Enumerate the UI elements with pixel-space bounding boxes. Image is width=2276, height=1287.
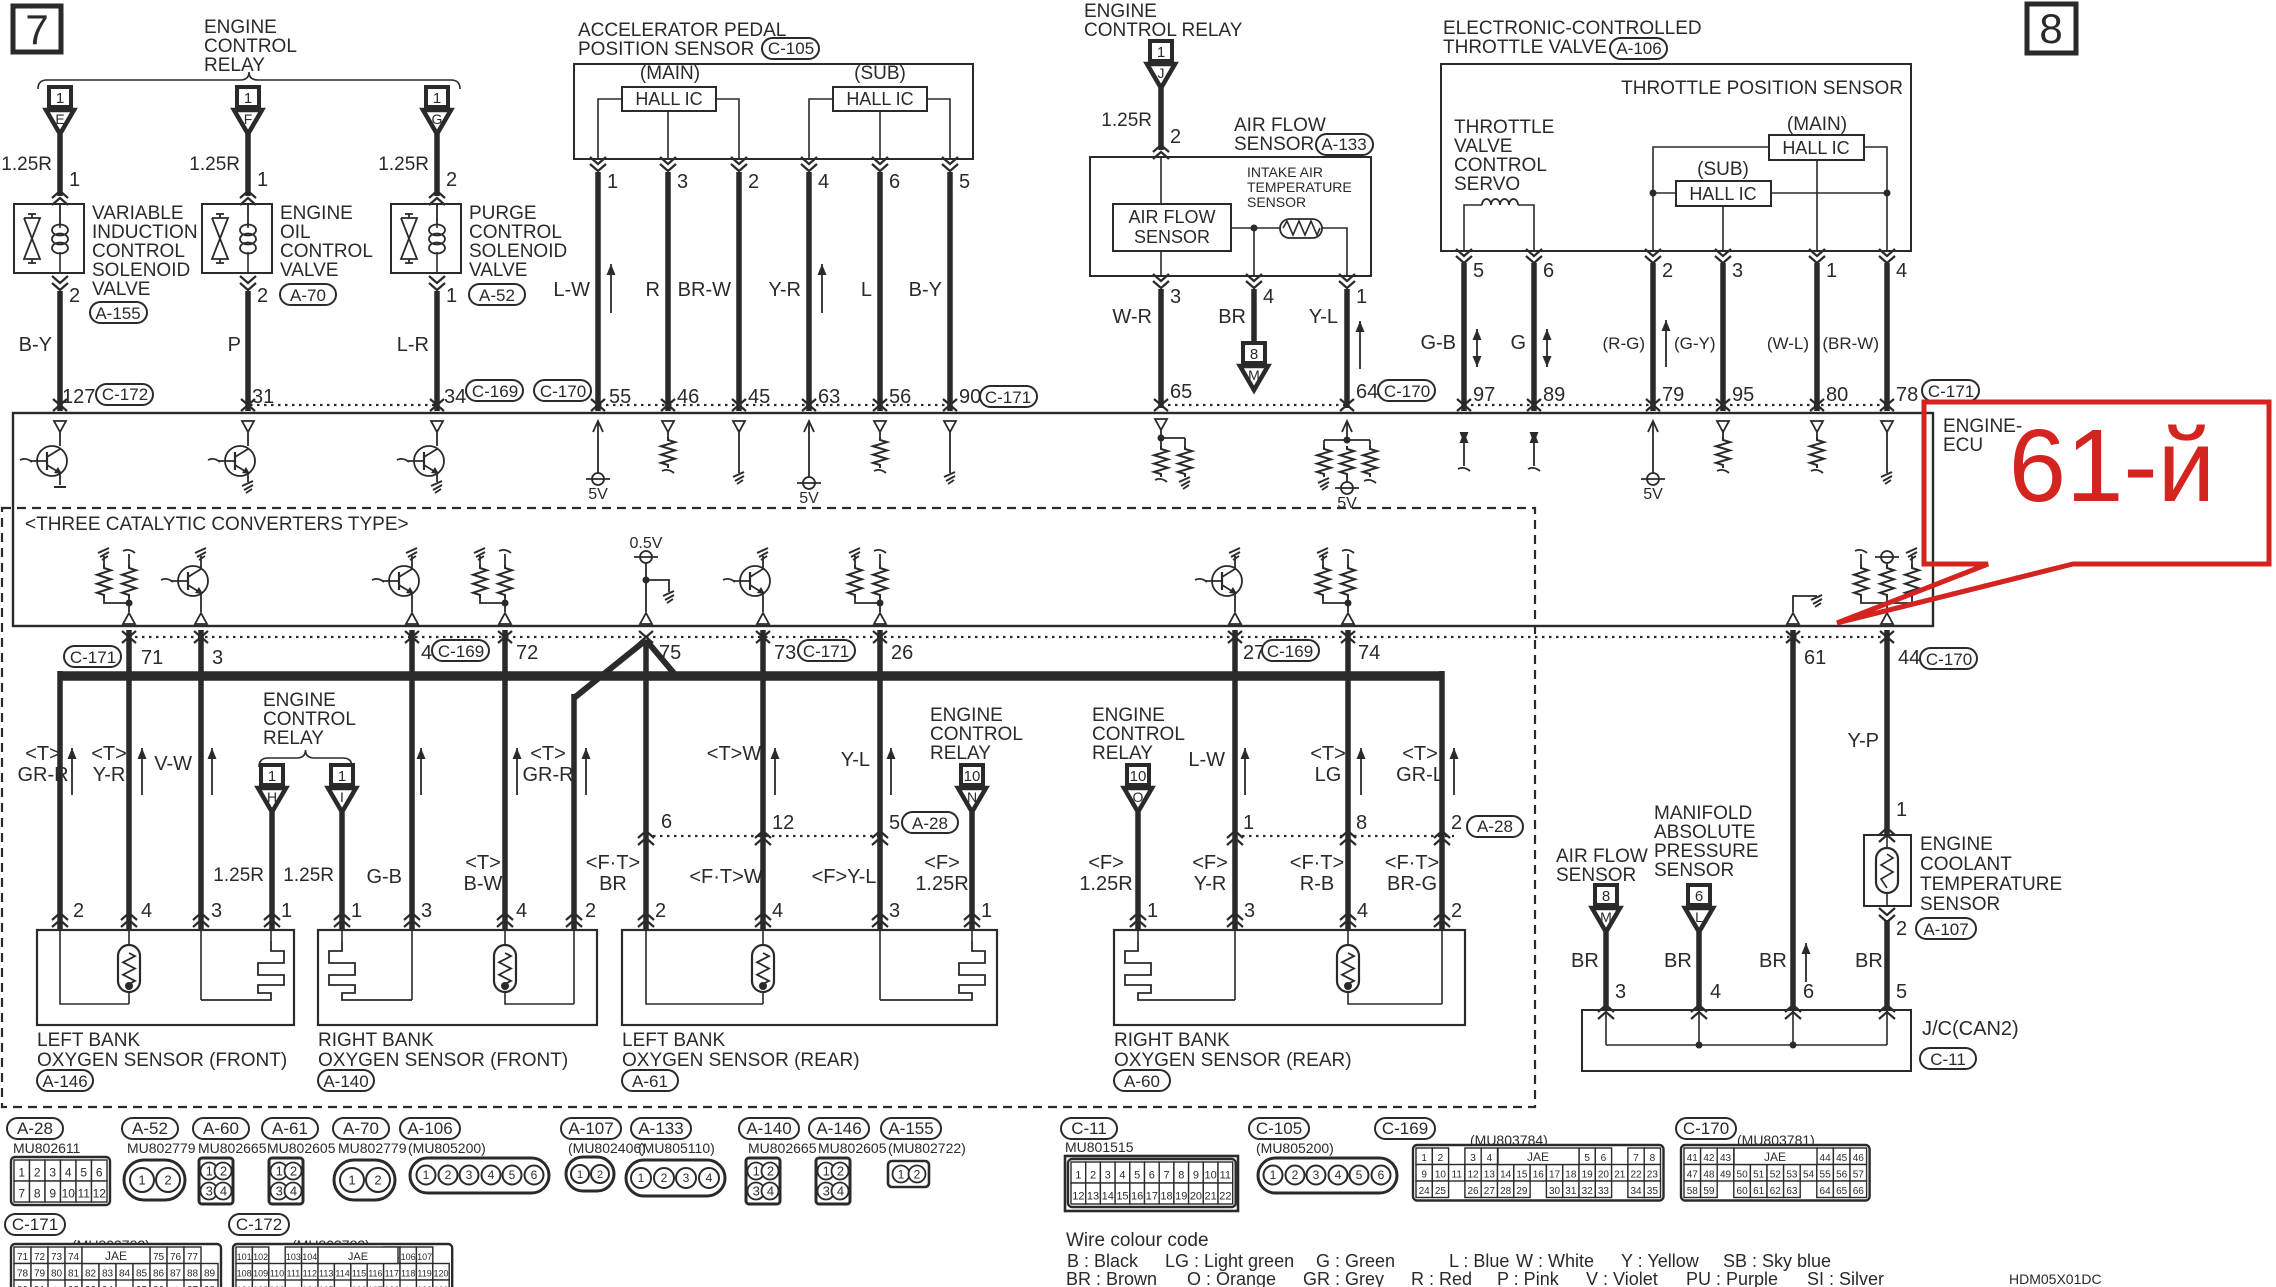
- svg-text:<T>: <T>: [91, 743, 127, 765]
- svg-text:THROTTLE POSITION SENSOR: THROTTLE POSITION SENSOR: [1621, 78, 1903, 99]
- pin75 vertical wire down to A-61 pin2: [643, 640, 649, 930]
- ECU pin 34 driver transistor: [431, 421, 443, 432]
- wire 1.25R to A-140... A-146 pin1: [269, 812, 275, 930]
- svg-text:6: 6: [1601, 1153, 1607, 1164]
- svg-text:102: 102: [253, 1252, 268, 1262]
- svg-text:BR: BR: [1664, 950, 1692, 972]
- svg-text:10: 10: [1435, 1169, 1447, 1180]
- svg-text:1: 1: [276, 1163, 283, 1178]
- svg-text:5: 5: [889, 812, 900, 834]
- svg-text:CONTROL: CONTROL: [1092, 724, 1185, 745]
- connector table A-61: [262, 1118, 318, 1139]
- up arrow on wire 1: [610, 264, 612, 313]
- svg-text:16: 16: [1131, 1190, 1143, 1202]
- svg-text:L : Blue: L : Blue: [1449, 1251, 1509, 1271]
- svg-text:73: 73: [774, 642, 796, 664]
- page number 7 box: [13, 6, 61, 52]
- svg-text:5: 5: [959, 171, 970, 193]
- svg-text:R: R: [646, 279, 660, 301]
- svg-text:SENSOR: SENSOR: [1134, 227, 1210, 247]
- up arrow beside 61 wire: [1805, 943, 1807, 982]
- svg-text:17: 17: [1146, 1190, 1158, 1202]
- wire chevron out of valve: [52, 276, 68, 283]
- three catalytic converters dashed box: [2, 508, 1535, 1107]
- connector table A-28: [7, 1118, 63, 1139]
- svg-text:PRESSURE: PRESSURE: [1654, 841, 1759, 862]
- wire ECU44 Y-P down to ECT sensor: [1884, 630, 1890, 835]
- svg-text:CONTROL: CONTROL: [930, 724, 1023, 745]
- svg-text:115: 115: [352, 1268, 366, 1278]
- svg-text:3: 3: [889, 900, 900, 922]
- wire BR from ECT pin2 to J/C pin 5: [1879, 908, 1895, 915]
- svg-text:5: 5: [1896, 981, 1907, 1003]
- ECU pin 45 ground: [733, 421, 745, 432]
- svg-text:65: 65: [1836, 1186, 1848, 1197]
- svg-text:C-171: C-171: [12, 1215, 58, 1234]
- svg-text:33: 33: [1598, 1186, 1610, 1197]
- ECU pin 80 pull-up resistor: [1811, 421, 1823, 432]
- svg-text:MU801515: MU801515: [1065, 1139, 1134, 1155]
- svg-text:53: 53: [1786, 1169, 1798, 1180]
- connector table A-133: [631, 1118, 691, 1139]
- svg-text:62: 62: [1770, 1186, 1782, 1197]
- svg-text:120: 120: [433, 1268, 448, 1278]
- svg-text:12: 12: [1467, 1169, 1479, 1180]
- svg-text:2: 2: [1090, 1169, 1096, 1181]
- connector table A-70: [333, 1118, 389, 1139]
- svg-text:15: 15: [1116, 1190, 1128, 1202]
- svg-text:8: 8: [2039, 5, 2062, 52]
- ENGINE-ECU box: [13, 413, 1933, 626]
- svg-text:107: 107: [417, 1252, 432, 1262]
- svg-text:A-61: A-61: [272, 1119, 308, 1138]
- svg-text:G-B: G-B: [366, 866, 402, 888]
- svg-text:3: 3: [1470, 1153, 1476, 1164]
- svg-text:<T>: <T>: [1402, 743, 1438, 765]
- ECU pin 73 driver transistor: [757, 548, 768, 553]
- connector label C-105: [762, 38, 819, 59]
- svg-text:127: 127: [62, 386, 95, 408]
- throttle valve pin 4 wire (BR-W) to ECU pin 78: [1879, 249, 1895, 256]
- svg-text:12: 12: [772, 812, 794, 834]
- svg-text:ABSOLUTE: ABSOLUTE: [1654, 822, 1755, 843]
- ECU pin 44 resistor network: [1855, 550, 1867, 553]
- connector table C-170: [1676, 1118, 1736, 1139]
- svg-text:44: 44: [1898, 647, 1920, 669]
- ECU pin 74 resistor pair: [1317, 548, 1328, 553]
- svg-text:<T>: <T>: [465, 852, 501, 874]
- svg-text:A-107: A-107: [568, 1119, 613, 1138]
- chevron at J/C: [1879, 1005, 1895, 1012]
- sensing element: [971, 930, 973, 941]
- svg-text:29: 29: [1516, 1186, 1528, 1197]
- svg-text:3: 3: [677, 171, 688, 193]
- svg-text:A-61: A-61: [632, 1072, 668, 1091]
- svg-text:SB : Sky blue: SB : Sky blue: [1723, 1251, 1831, 1271]
- svg-text:1: 1: [1356, 286, 1367, 308]
- brace over relay connectors E,F,G: [38, 72, 460, 89]
- svg-text:4: 4: [220, 1184, 227, 1199]
- wire L-R down to ECU: [434, 291, 440, 411]
- throttle valve pin 1 wire (W-L) to ECU pin 80: [1809, 249, 1825, 256]
- svg-text:45: 45: [1836, 1153, 1848, 1164]
- svg-text:101: 101: [237, 1252, 252, 1262]
- connector label A-70: [280, 284, 336, 305]
- svg-text:78: 78: [1896, 384, 1918, 406]
- svg-text:119: 119: [417, 1268, 431, 1278]
- svg-text:MU802611: MU802611: [13, 1140, 81, 1156]
- svg-text:35: 35: [1647, 1186, 1659, 1197]
- svg-text:1.25R: 1.25R: [378, 154, 429, 175]
- svg-text:1: 1: [1421, 1153, 1427, 1164]
- svg-text:C-11: C-11: [1071, 1119, 1107, 1138]
- svg-text:50: 50: [1737, 1169, 1749, 1180]
- svg-text:48: 48: [1703, 1169, 1715, 1180]
- connector table A-60: [193, 1118, 249, 1139]
- wire 1.25R from relay E: [57, 134, 63, 196]
- svg-text:MU802605: MU802605: [818, 1140, 887, 1156]
- svg-text:SENSOR: SENSOR: [1234, 134, 1314, 155]
- svg-text:1: 1: [607, 171, 618, 193]
- svg-text:1: 1: [56, 90, 64, 107]
- wire ECU71 to A-146 pin4: [126, 630, 132, 930]
- svg-text:A-28: A-28: [1477, 817, 1513, 836]
- svg-text:JAE: JAE: [1764, 1150, 1786, 1164]
- svg-text:1: 1: [577, 1169, 583, 1181]
- svg-text:<F>: <F>: [1088, 852, 1124, 874]
- svg-text:<F·T>: <F·T>: [1385, 852, 1439, 874]
- svg-text:C-169: C-169: [438, 642, 484, 661]
- svg-text:<F·T>W: <F·T>W: [689, 866, 762, 888]
- svg-text:3: 3: [1244, 900, 1255, 922]
- airflow sensor pin 1: [1339, 274, 1355, 281]
- connector table A-155: [881, 1118, 941, 1139]
- svg-text:7: 7: [1163, 1169, 1169, 1181]
- svg-text:HALL IC: HALL IC: [846, 89, 913, 109]
- svg-text:2: 2: [445, 1168, 452, 1182]
- svg-text:3: 3: [1105, 1169, 1111, 1181]
- svg-text:65: 65: [1170, 381, 1192, 403]
- valve bowtie symbol: [401, 218, 417, 259]
- svg-text:RELAY: RELAY: [263, 728, 324, 749]
- svg-text:89: 89: [1543, 384, 1565, 406]
- svg-text:3: 3: [49, 1165, 56, 1179]
- engine control relay connector 1-J: [1150, 41, 1172, 61]
- svg-text:10: 10: [964, 768, 981, 785]
- svg-text:47: 47: [1687, 1169, 1699, 1180]
- svg-text:(W-L): (W-L): [1767, 334, 1809, 353]
- sensing element: [341, 930, 343, 941]
- ECU pin 127 driver transistor: [54, 421, 66, 432]
- J/C (CAN2) box C-11: [1582, 1010, 1911, 1071]
- svg-text:A-106: A-106: [407, 1119, 452, 1138]
- connector label C-171: [1922, 380, 1979, 401]
- svg-text:CONTROL: CONTROL: [204, 36, 297, 57]
- wire chevron into valve: [240, 191, 256, 198]
- svg-text:2: 2: [220, 1163, 227, 1178]
- svg-text:CONTROL: CONTROL: [1454, 155, 1547, 176]
- svg-text:SENSOR: SENSOR: [1247, 194, 1306, 210]
- svg-text:1: 1: [18, 1165, 25, 1179]
- svg-text:C-172: C-172: [236, 1215, 282, 1234]
- svg-text:0.5V: 0.5V: [630, 535, 663, 552]
- svg-text:GR : Grey: GR : Grey: [1303, 1269, 1384, 1287]
- svg-text:106: 106: [401, 1252, 416, 1262]
- svg-text:MU802665: MU802665: [198, 1140, 267, 1156]
- svg-text:LG: LG: [1315, 764, 1342, 786]
- svg-text:43: 43: [1720, 1153, 1732, 1164]
- ECU pin 79 5V supply: [1648, 421, 1658, 432]
- J/C internal bus: [1606, 1044, 1887, 1046]
- wire Y-L to ECU pin 64: [1344, 289, 1350, 408]
- svg-text:4: 4: [421, 642, 432, 664]
- pin75 V junction right diagonal: [646, 640, 678, 678]
- svg-text:4: 4: [1357, 900, 1368, 922]
- svg-text:A-133: A-133: [1321, 135, 1366, 154]
- svg-text:11: 11: [1220, 1169, 1231, 1181]
- airflow sensor internal wires: [1231, 227, 1280, 229]
- svg-text:C-169: C-169: [1267, 642, 1313, 661]
- svg-text:<F>Y-L: <F>Y-L: [812, 866, 877, 888]
- svg-text:7: 7: [25, 6, 48, 53]
- airflow sensor pin 4: [1246, 274, 1262, 281]
- svg-text:J: J: [1158, 65, 1165, 81]
- svg-text:2: 2: [374, 1173, 381, 1188]
- svg-text:114: 114: [335, 1268, 349, 1278]
- up arrow on wire 4: [821, 264, 823, 313]
- svg-text:97: 97: [1473, 384, 1495, 406]
- svg-text:ENGINE: ENGINE: [1920, 834, 1993, 855]
- svg-text:(MAIN): (MAIN): [640, 63, 700, 84]
- double arrow on wire 5: [1476, 329, 1478, 367]
- svg-text:4: 4: [141, 900, 152, 922]
- svg-text:3: 3: [212, 647, 223, 669]
- svg-text:4: 4: [837, 1184, 844, 1199]
- svg-text:6: 6: [889, 171, 900, 193]
- svg-text:AIR FLOW: AIR FLOW: [1556, 846, 1648, 867]
- svg-text:71: 71: [17, 1252, 29, 1263]
- LEFT BANK OXYGEN SENSOR (REAR) box A-61: [622, 930, 997, 1025]
- svg-text:1: 1: [823, 1163, 830, 1178]
- svg-text:46: 46: [677, 386, 699, 408]
- bus right corner down to A-60 pin2: [1439, 671, 1445, 930]
- svg-text:ENGINE: ENGINE: [930, 705, 1003, 726]
- svg-text:2: 2: [748, 171, 759, 193]
- wire 1.25R relay J down: [1158, 88, 1164, 150]
- svg-text:1: 1: [1896, 799, 1907, 821]
- svg-text:41: 41: [1687, 1153, 1699, 1164]
- wire L-W pedal sensor pin 1 to ECU pin 55: [590, 157, 606, 164]
- svg-text:1: 1: [1243, 812, 1254, 834]
- svg-text:H: H: [267, 789, 277, 805]
- svg-text:A-28: A-28: [912, 814, 948, 833]
- svg-text:6: 6: [1149, 1169, 1155, 1181]
- svg-text:34: 34: [1630, 1186, 1642, 1197]
- svg-text:21: 21: [1205, 1190, 1217, 1202]
- svg-text:8: 8: [1178, 1169, 1184, 1181]
- svg-text:P: P: [228, 334, 241, 356]
- svg-text:SOLENOID: SOLENOID: [92, 260, 190, 281]
- ECU pin 95 pull-up resistor: [1717, 421, 1729, 432]
- svg-text:MU802605: MU802605: [267, 1140, 336, 1156]
- svg-text:3: 3: [206, 1184, 213, 1199]
- svg-text:19: 19: [1175, 1190, 1187, 1202]
- wire chevron at A-28: [1434, 831, 1450, 838]
- svg-text:OXYGEN SENSOR (REAR): OXYGEN SENSOR (REAR): [622, 1050, 860, 1071]
- connector table A-52: [122, 1118, 178, 1139]
- connector label C-172: [96, 384, 153, 405]
- svg-text:(SUB): (SUB): [1697, 159, 1749, 180]
- svg-text:46: 46: [1853, 1153, 1865, 1164]
- engine control relay connector 1-E: [49, 87, 71, 107]
- svg-text:A-155: A-155: [888, 1119, 933, 1138]
- svg-text:113: 113: [319, 1268, 333, 1278]
- engine control relay connector 1-I: [331, 765, 353, 785]
- chevron at J/C: [1598, 1005, 1614, 1012]
- svg-text:22: 22: [1630, 1169, 1642, 1180]
- svg-text:VALVE: VALVE: [1454, 136, 1512, 157]
- airflow sensor connector 8-M: [1243, 343, 1265, 363]
- svg-text:104: 104: [302, 1252, 317, 1262]
- X marks at ECU bottom pins: [122, 631, 136, 643]
- wire Y-R pedal sensor pin 4 to ECU pin 63: [801, 157, 817, 164]
- svg-text:<T>W: <T>W: [707, 743, 762, 765]
- connector label A-106: [1610, 38, 1667, 59]
- svg-text:A-146: A-146: [42, 1072, 87, 1091]
- connector label A-133: [1316, 134, 1373, 155]
- svg-text:57: 57: [1853, 1169, 1865, 1180]
- svg-text:RIGHT BANK: RIGHT BANK: [1114, 1030, 1230, 1051]
- svg-text:61: 61: [1753, 1186, 1765, 1197]
- svg-text:RELAY: RELAY: [930, 743, 991, 764]
- svg-text:A-70: A-70: [343, 1119, 379, 1138]
- svg-text:ENGINE: ENGINE: [1084, 1, 1157, 22]
- svg-text:18: 18: [1565, 1169, 1577, 1180]
- X marks at ECU top pins: [53, 399, 67, 411]
- svg-text:BR-W: BR-W: [678, 279, 731, 301]
- svg-text:71: 71: [141, 647, 163, 669]
- svg-text:1: 1: [138, 1173, 145, 1188]
- air flow sensor outer box: [1090, 157, 1371, 276]
- svg-text:ENGINE: ENGINE: [204, 17, 277, 38]
- wire chevron at A-28: [872, 831, 888, 838]
- ECU pin 4 driver transistor: [406, 548, 417, 553]
- svg-text:56: 56: [1836, 1169, 1848, 1180]
- svg-text:2: 2: [1170, 126, 1181, 148]
- svg-text:63: 63: [1786, 1186, 1798, 1197]
- svg-text:23: 23: [1647, 1169, 1659, 1180]
- wire chevron at A-28: [638, 831, 654, 838]
- svg-text:95: 95: [1732, 384, 1754, 406]
- svg-text:SENSOR: SENSOR: [1654, 860, 1734, 881]
- svg-text:2: 2: [837, 1163, 844, 1178]
- svg-text:4: 4: [516, 900, 527, 922]
- svg-text:9: 9: [49, 1186, 56, 1200]
- svg-text:1: 1: [348, 1173, 355, 1188]
- svg-text:8: 8: [1602, 888, 1610, 905]
- svg-text:C-105: C-105: [1256, 1119, 1302, 1138]
- svg-text:117: 117: [385, 1268, 399, 1278]
- svg-text:10: 10: [62, 1186, 76, 1200]
- svg-text:(MU802406): (MU802406): [568, 1140, 646, 1156]
- connector boundary dotted line (top): [250, 404, 437, 406]
- svg-text:20: 20: [1598, 1169, 1610, 1180]
- svg-text:3: 3: [1313, 1168, 1320, 1182]
- ECU bottom pin labels: [64, 646, 121, 667]
- svg-text:76: 76: [170, 1252, 182, 1263]
- svg-text:INDUCTION: INDUCTION: [92, 222, 198, 243]
- svg-text:CONTROL: CONTROL: [469, 222, 562, 243]
- svg-text:ELECTRONIC-CONTROLLED: ELECTRONIC-CONTROLLED: [1443, 18, 1702, 39]
- air flow sensor inner box: [1113, 204, 1231, 251]
- svg-text:G : Green: G : Green: [1316, 1251, 1395, 1271]
- svg-text:JAE: JAE: [348, 1251, 368, 1263]
- svg-text:THROTTLE: THROTTLE: [1454, 117, 1554, 138]
- svg-text:C-172: C-172: [102, 385, 148, 404]
- svg-text:4: 4: [1896, 260, 1907, 282]
- svg-text:9: 9: [1421, 1169, 1427, 1180]
- svg-text:2: 2: [1662, 260, 1673, 282]
- svg-text:ENGINE: ENGINE: [263, 690, 336, 711]
- svg-text:INTAKE AIR: INTAKE AIR: [1247, 164, 1323, 180]
- wire L pedal sensor pin 6 to ECU pin 56: [872, 157, 888, 164]
- svg-text:E: E: [55, 111, 64, 127]
- engine coolant temperature sensor box A-107: [1879, 828, 1895, 835]
- svg-text:BR: BR: [1571, 950, 1599, 972]
- svg-text:112: 112: [303, 1268, 317, 1278]
- svg-text:JAE: JAE: [105, 1249, 127, 1263]
- svg-text:61-й: 61-й: [2009, 408, 2215, 523]
- svg-text:1: 1: [351, 900, 362, 922]
- svg-text:64: 64: [1356, 381, 1378, 403]
- svg-text:4: 4: [1119, 1169, 1125, 1181]
- svg-text:79: 79: [1662, 384, 1684, 406]
- svg-text:6: 6: [1803, 981, 1814, 1003]
- svg-text:SERVO: SERVO: [1454, 174, 1520, 195]
- svg-text:8: 8: [34, 1186, 41, 1200]
- svg-text:5V: 5V: [588, 486, 608, 503]
- svg-text:28: 28: [1500, 1186, 1512, 1197]
- svg-text:45: 45: [748, 386, 770, 408]
- svg-text:A-60: A-60: [1124, 1072, 1160, 1091]
- svg-text:(MU802722): (MU802722): [888, 1140, 966, 1156]
- svg-text:SOLENOID: SOLENOID: [469, 241, 567, 262]
- svg-text:A-146: A-146: [816, 1119, 861, 1138]
- wire ECU27 to A-60 pin3: [1232, 630, 1238, 930]
- svg-text:V : Violet: V : Violet: [1586, 1269, 1658, 1287]
- ECT thermistor: [1876, 848, 1898, 893]
- svg-text:GR-R: GR-R: [522, 764, 573, 786]
- throttle valve pin 3 wire (G-Y) to ECU pin 95: [1715, 249, 1731, 256]
- svg-text:ACCELERATOR PEDAL: ACCELERATOR PEDAL: [578, 20, 786, 41]
- svg-text:<F>: <F>: [924, 852, 960, 874]
- svg-text:OXYGEN SENSOR (FRONT): OXYGEN SENSOR (FRONT): [37, 1050, 287, 1071]
- svg-text:2: 2: [1292, 1168, 1299, 1182]
- svg-text:42: 42: [1703, 1153, 1715, 1164]
- svg-text:C-170: C-170: [1384, 382, 1430, 401]
- svg-text:(G-Y): (G-Y): [1674, 334, 1716, 353]
- svg-text:AIR FLOW: AIR FLOW: [1128, 207, 1215, 227]
- svg-text:A-106: A-106: [1616, 39, 1661, 58]
- svg-text:72: 72: [34, 1252, 46, 1263]
- connector table C-171: [5, 1214, 65, 1235]
- svg-text:3: 3: [276, 1184, 283, 1199]
- svg-text:BR-G: BR-G: [1387, 873, 1437, 895]
- wire chevron out of valve: [429, 276, 445, 283]
- connector table A-140: [739, 1118, 799, 1139]
- svg-text:1: 1: [638, 1171, 645, 1185]
- wire ECU61 (BR) down to J/C: [1790, 630, 1796, 1010]
